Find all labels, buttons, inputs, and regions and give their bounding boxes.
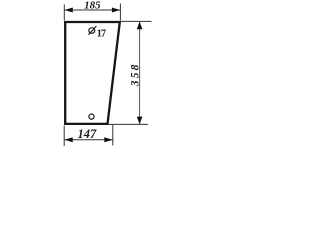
hole circle: [89, 114, 94, 119]
svg-text:185: 185: [84, 0, 101, 12]
extension line bottom of dim 358: [109, 123, 149, 125]
svg-text:17: 17: [97, 29, 106, 40]
extension line right of dim 185: [119, 4, 121, 21]
svg-text:147: 147: [78, 127, 98, 141]
extension line top of dim 358: [121, 20, 152, 22]
panel outline: [65, 22, 120, 124]
arrow right of dim 147: [104, 137, 112, 142]
arrow right of dim 185: [112, 8, 120, 13]
extension line left of dim 185: [63, 5, 65, 21]
diameter symbol of hole label: [89, 26, 97, 35]
arrow left of dim 147: [64, 137, 72, 142]
dimension line 185: [64, 9, 120, 11]
extension line left of dim 147: [63, 126, 65, 147]
arrow up of dim 358: [137, 21, 143, 29]
arrow down of dim 358: [137, 117, 143, 125]
dimension line 147: [64, 139, 113, 141]
extension line right of dim 147: [112, 125, 114, 146]
arrow left of dim 185: [65, 8, 73, 13]
svg-text:358: 358: [129, 62, 141, 87]
dimension line 358: [139, 22, 141, 125]
